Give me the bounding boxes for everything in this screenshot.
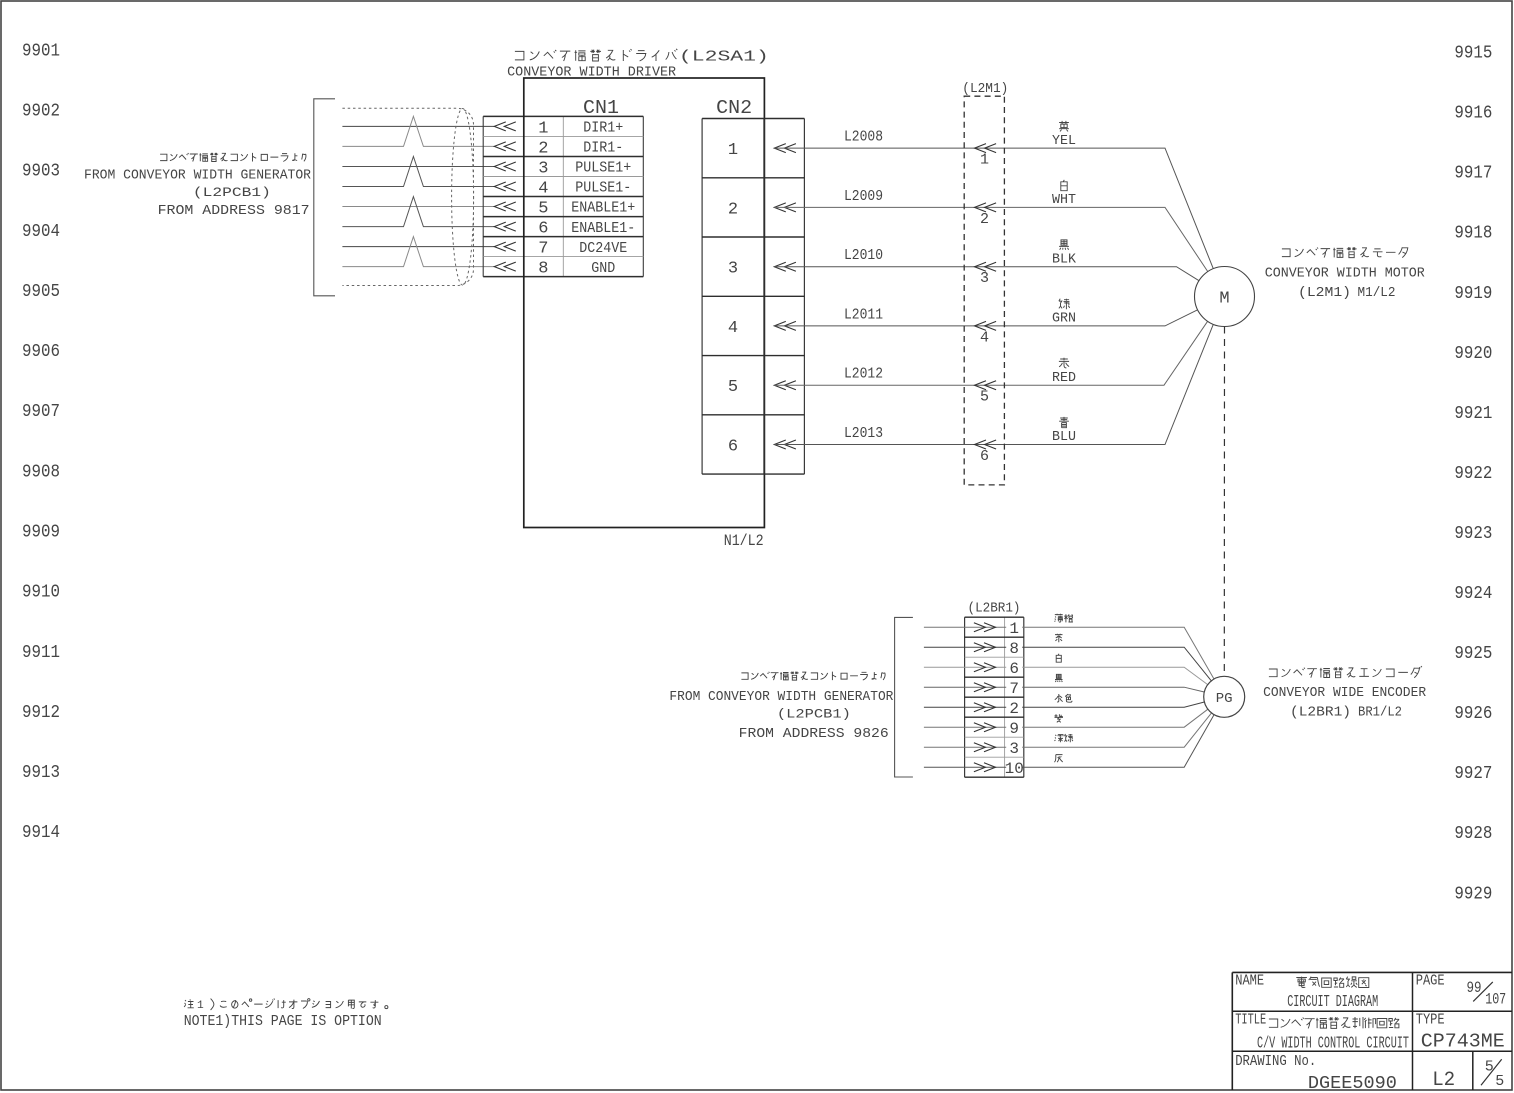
svg-text:RED: RED bbox=[1052, 370, 1076, 386]
svg-text:CP743ME: CP743ME bbox=[1421, 1030, 1505, 1052]
svg-text:3: 3 bbox=[728, 260, 738, 279]
svg-text:FROM CONVEYOR WIDTH GENERATOR: FROM CONVEYOR WIDTH GENERATOR bbox=[669, 689, 894, 705]
svg-text:5: 5 bbox=[1495, 1073, 1504, 1090]
svg-text:L2009: L2009 bbox=[844, 188, 883, 205]
svg-text:9916: 9916 bbox=[1454, 104, 1492, 124]
svg-text:9928: 9928 bbox=[1454, 824, 1492, 844]
svg-text:9909: 9909 bbox=[22, 523, 60, 543]
svg-text:9920: 9920 bbox=[1454, 344, 1492, 364]
svg-text:CN1: CN1 bbox=[583, 97, 619, 119]
svg-text:(L2BR1): (L2BR1) bbox=[968, 601, 1021, 616]
svg-text:5: 5 bbox=[1485, 1058, 1494, 1075]
svg-text:L2008: L2008 bbox=[844, 129, 883, 146]
svg-text:9923: 9923 bbox=[1454, 524, 1492, 544]
svg-text:1: 1 bbox=[197, 1000, 204, 1012]
svg-text:9921: 9921 bbox=[1454, 404, 1492, 424]
svg-text:9926: 9926 bbox=[1454, 704, 1492, 724]
svg-text:9902: 9902 bbox=[22, 102, 60, 122]
svg-text:L2010: L2010 bbox=[844, 247, 883, 264]
svg-text:4: 4 bbox=[538, 180, 548, 199]
svg-text:NOTE1)THIS PAGE IS OPTION: NOTE1)THIS PAGE IS OPTION bbox=[184, 1013, 382, 1030]
svg-text:CONVEYOR WIDTH MOTOR: CONVEYOR WIDTH MOTOR bbox=[1265, 265, 1426, 281]
svg-text:9915: 9915 bbox=[1454, 44, 1492, 64]
svg-text:2: 2 bbox=[1009, 700, 1019, 718]
svg-text:L2011: L2011 bbox=[844, 306, 883, 323]
svg-text:9919: 9919 bbox=[1454, 284, 1492, 304]
svg-text:6: 6 bbox=[538, 220, 548, 239]
svg-text:3: 3 bbox=[980, 270, 989, 287]
svg-text:FROM CONVEYOR WIDTH GENERATOR: FROM CONVEYOR WIDTH GENERATOR bbox=[84, 168, 312, 184]
svg-text:ENABLE1+: ENABLE1+ bbox=[571, 200, 635, 217]
svg-text:PULSE1+: PULSE1+ bbox=[575, 160, 631, 177]
svg-text:9914: 9914 bbox=[22, 823, 60, 843]
svg-text:7: 7 bbox=[1009, 680, 1019, 698]
svg-text:YEL: YEL bbox=[1052, 133, 1076, 149]
svg-text:9907: 9907 bbox=[22, 402, 60, 422]
svg-text:2: 2 bbox=[980, 211, 989, 228]
svg-text:9905: 9905 bbox=[22, 282, 60, 302]
svg-text:DC24VE: DC24VE bbox=[579, 240, 627, 257]
svg-text:NAME: NAME bbox=[1235, 973, 1264, 990]
svg-text:(L2PCB1): (L2PCB1) bbox=[193, 185, 271, 200]
svg-text:BLU: BLU bbox=[1052, 429, 1076, 445]
svg-text:9917: 9917 bbox=[1454, 164, 1492, 184]
svg-text:DIR1+: DIR1+ bbox=[583, 120, 623, 137]
svg-text:BLK: BLK bbox=[1052, 251, 1077, 267]
svg-text:9906: 9906 bbox=[22, 342, 60, 362]
svg-text:99: 99 bbox=[1467, 979, 1482, 997]
svg-text:9918: 9918 bbox=[1454, 224, 1492, 244]
svg-text:9912: 9912 bbox=[22, 703, 60, 723]
svg-text:CONVEYOR WIDTH DRIVER: CONVEYOR WIDTH DRIVER bbox=[507, 66, 676, 81]
svg-text:107: 107 bbox=[1485, 991, 1506, 1009]
svg-text:8: 8 bbox=[538, 260, 548, 279]
svg-text:BR1/L2: BR1/L2 bbox=[1358, 706, 1402, 721]
svg-text:(L2M1): (L2M1) bbox=[962, 81, 1008, 97]
svg-text:6: 6 bbox=[1009, 660, 1019, 678]
svg-text:6: 6 bbox=[728, 438, 738, 457]
svg-text:9: 9 bbox=[1009, 720, 1019, 738]
svg-text:1: 1 bbox=[980, 152, 989, 169]
svg-text:10: 10 bbox=[1005, 760, 1024, 778]
svg-text:3: 3 bbox=[1009, 740, 1019, 758]
svg-text:CONVEYOR WIDE ENCODER: CONVEYOR WIDE ENCODER bbox=[1263, 685, 1427, 701]
svg-text:4: 4 bbox=[728, 319, 738, 338]
svg-text:6: 6 bbox=[980, 448, 989, 465]
svg-text:TITLE: TITLE bbox=[1235, 1012, 1266, 1029]
svg-text:GRN: GRN bbox=[1052, 311, 1076, 327]
svg-text:9922: 9922 bbox=[1454, 464, 1492, 484]
svg-text:9924: 9924 bbox=[1454, 584, 1492, 604]
svg-text:9908: 9908 bbox=[22, 462, 60, 482]
svg-text:2: 2 bbox=[538, 139, 548, 158]
svg-text:CIRCUIT DIAGRAM: CIRCUIT DIAGRAM bbox=[1287, 993, 1378, 1012]
svg-text:5: 5 bbox=[728, 378, 738, 397]
svg-text:9927: 9927 bbox=[1454, 764, 1492, 784]
svg-text:9901: 9901 bbox=[22, 41, 60, 61]
svg-text:(L2PCB1): (L2PCB1) bbox=[777, 707, 851, 721]
svg-text:(L2BR1): (L2BR1) bbox=[1290, 706, 1351, 721]
svg-text:WHT: WHT bbox=[1052, 192, 1076, 208]
svg-text:L2012: L2012 bbox=[844, 366, 883, 383]
svg-text:L2013: L2013 bbox=[844, 425, 883, 442]
svg-text:PULSE1-: PULSE1- bbox=[575, 180, 631, 197]
svg-text:1: 1 bbox=[1009, 620, 1019, 638]
svg-text:DGEE5090: DGEE5090 bbox=[1308, 1074, 1397, 1093]
svg-text:9913: 9913 bbox=[22, 763, 60, 783]
svg-text:PG: PG bbox=[1216, 691, 1233, 707]
svg-text:9910: 9910 bbox=[22, 583, 60, 603]
svg-text:FROM ADDRESS 9826: FROM ADDRESS 9826 bbox=[739, 726, 889, 742]
svg-text:2: 2 bbox=[728, 200, 738, 219]
svg-text:5: 5 bbox=[980, 389, 989, 406]
svg-text:L2: L2 bbox=[1432, 1069, 1455, 1092]
svg-text:5: 5 bbox=[538, 200, 548, 219]
svg-text:DRAWING No.: DRAWING No. bbox=[1235, 1053, 1316, 1070]
svg-text:CN2: CN2 bbox=[716, 97, 752, 119]
svg-text:9929: 9929 bbox=[1454, 884, 1492, 904]
svg-text:DIR1-: DIR1- bbox=[583, 140, 623, 157]
svg-text:(L2SA1): (L2SA1) bbox=[679, 48, 769, 65]
svg-text:9904: 9904 bbox=[22, 222, 60, 242]
svg-text:ENABLE1-: ENABLE1- bbox=[571, 220, 635, 237]
svg-text:9903: 9903 bbox=[22, 162, 60, 182]
svg-text:PAGE: PAGE bbox=[1416, 973, 1445, 990]
svg-text:9911: 9911 bbox=[22, 643, 60, 663]
svg-text:8: 8 bbox=[1009, 640, 1019, 658]
svg-text:N1/L2: N1/L2 bbox=[724, 532, 764, 550]
svg-text:M: M bbox=[1219, 290, 1229, 309]
svg-text:4: 4 bbox=[980, 329, 989, 346]
svg-text:7: 7 bbox=[538, 240, 548, 259]
svg-text:(L2M1): (L2M1) bbox=[1298, 286, 1351, 301]
svg-text:1: 1 bbox=[728, 141, 738, 160]
svg-text:GND: GND bbox=[591, 260, 615, 277]
svg-text:M1/L2: M1/L2 bbox=[1358, 286, 1396, 301]
svg-text:1: 1 bbox=[538, 119, 548, 138]
svg-text:9925: 9925 bbox=[1454, 644, 1492, 664]
svg-text:3: 3 bbox=[538, 160, 548, 179]
svg-text:FROM ADDRESS 9817: FROM ADDRESS 9817 bbox=[158, 203, 310, 219]
svg-text:C/V WIDTH CONTROL CIRCUIT: C/V WIDTH CONTROL CIRCUIT bbox=[1257, 1033, 1409, 1052]
svg-text:TYPE: TYPE bbox=[1416, 1012, 1445, 1029]
